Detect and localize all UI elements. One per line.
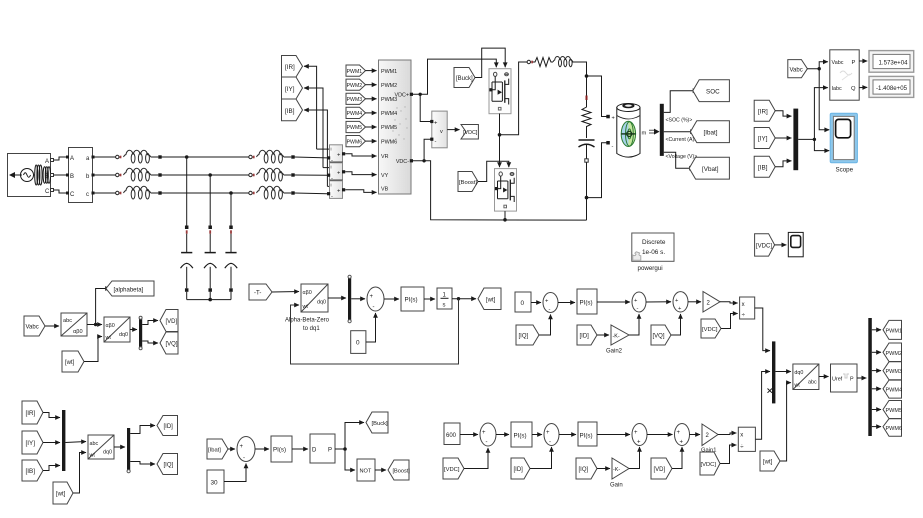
wire constant 0 to pll sum bbox=[366, 313, 376, 342]
shunt capacitor branch phase B bbox=[225, 193, 237, 300]
port tick row Y second bbox=[249, 173, 252, 176]
wire sensor B output to IB tag bbox=[304, 110, 327, 186]
node capacitor bank common bbox=[208, 298, 212, 302]
svg-text:-: - bbox=[549, 307, 551, 313]
current measurement block phase Y bbox=[327, 163, 345, 182]
svg-text:[Buck]: [Buck] bbox=[372, 421, 388, 427]
wire mosfet Q1 source to switch node bbox=[499, 114, 501, 167]
port square snubber bottom bbox=[585, 159, 588, 162]
svg-text:VB: VB bbox=[381, 187, 389, 193]
wire sensor Y output to IY tag bbox=[304, 88, 323, 168]
svg-text:C: C bbox=[70, 192, 75, 198]
capacitor C snubber bbox=[579, 140, 595, 159]
from tag PWM2 top bbox=[346, 79, 377, 90]
wire PI to relay bbox=[292, 448, 308, 450]
svg-text:v: v bbox=[440, 129, 443, 135]
svg-text:A: A bbox=[45, 159, 49, 165]
goto tag PWM6 out bbox=[883, 419, 902, 437]
svg-text:-: - bbox=[243, 456, 245, 462]
svg-text:-: - bbox=[486, 440, 488, 446]
wire phase R row bbox=[94, 156, 116, 158]
svg-text:αβ0: αβ0 bbox=[106, 323, 115, 329]
svg-text:[Buck]: [Buck] bbox=[456, 76, 473, 82]
shunt capacitor branch phase Y bbox=[204, 175, 216, 300]
from tag VQ q chain bbox=[651, 325, 671, 345]
svg-text:[VDC]: [VDC] bbox=[702, 327, 718, 333]
from tag IB bottom bbox=[22, 460, 43, 481]
wire IQ to q sum1 bbox=[539, 315, 551, 336]
svg-text:30: 30 bbox=[211, 480, 219, 487]
current measurement block phase R bbox=[327, 145, 345, 164]
svg-text:wt: wt bbox=[89, 453, 96, 459]
wire VD to d sum4 bbox=[672, 447, 682, 469]
wire battery m to bus selector bbox=[649, 129, 660, 135]
svg-text:i: i bbox=[331, 147, 332, 152]
PI controller charge bbox=[271, 436, 292, 462]
svg-text:PWM4: PWM4 bbox=[347, 111, 363, 117]
svg-text:[Boost]: [Boost] bbox=[393, 469, 411, 475]
wire bus to SOC tag bbox=[664, 91, 698, 113]
svg-text:PWM1: PWM1 bbox=[886, 328, 903, 334]
wire d sum2 to PI2 bbox=[559, 434, 576, 436]
svg-text:[IR]: [IR] bbox=[26, 410, 36, 417]
demux VD VQ bbox=[139, 319, 142, 347]
svg-text:[VDC]: [VDC] bbox=[463, 130, 478, 136]
svg-text:-: - bbox=[637, 306, 639, 312]
inductor L1 row R bbox=[124, 150, 151, 163]
from tag Buck bbox=[454, 68, 475, 88]
svg-text:[VQ]: [VQ] bbox=[653, 334, 665, 340]
wire pll transform to demux bbox=[328, 297, 346, 299]
svg-text:[IR]: [IR] bbox=[285, 64, 295, 71]
wire ID to Gain2 bbox=[597, 334, 609, 336]
goto tag PWM4 out bbox=[883, 380, 902, 398]
constant 30 bbox=[207, 470, 224, 493]
goto tag PWM2 out bbox=[883, 343, 902, 362]
svg-text:Q: Q bbox=[851, 86, 856, 92]
wire IB to scope mux bbox=[775, 161, 791, 167]
sum d4 bbox=[675, 424, 690, 446]
svg-text:Gain2: Gain2 bbox=[606, 349, 623, 355]
svg-text:PI(s): PI(s) bbox=[514, 433, 527, 440]
svg-text:dq0: dq0 bbox=[317, 300, 326, 306]
wire 0 to q sum1 bbox=[531, 302, 541, 304]
wire dc bus to battery plus bbox=[587, 76, 607, 117]
from tag wt D bbox=[53, 482, 73, 504]
three-phase AC source block bbox=[8, 154, 54, 197]
wire demux to PWM2 bbox=[872, 351, 881, 353]
sum d2 bbox=[544, 424, 559, 446]
svg-text:abc: abc bbox=[90, 441, 99, 447]
goto tag VDC dclink bbox=[461, 125, 478, 140]
wire wt to dq0 block A bbox=[84, 337, 102, 362]
wire row B into current sensor bbox=[295, 192, 328, 195]
wire phase Y row bbox=[94, 174, 116, 176]
relay block D to P bbox=[310, 434, 335, 463]
from tag Vabc right bbox=[788, 60, 808, 78]
wire d PI to sum2 bbox=[532, 434, 542, 436]
wire gain to product d bbox=[718, 433, 736, 435]
from tag IQ d chain bbox=[576, 458, 597, 479]
wire charge sum to PI bbox=[255, 448, 269, 450]
svg-text:VDC-: VDC- bbox=[396, 159, 409, 165]
from tag ID q chain bbox=[577, 325, 597, 345]
svg-text:[IB]: [IB] bbox=[285, 108, 295, 115]
wire mux to scope input2 bbox=[814, 139, 829, 150]
svg-text:VDC+: VDC+ bbox=[394, 93, 409, 99]
svg-text:Vabc: Vabc bbox=[790, 67, 803, 73]
svg-text:[IQ]: [IQ] bbox=[519, 334, 529, 340]
inductor L dc filter bbox=[553, 56, 573, 66]
wire product q to output mux bbox=[755, 308, 770, 351]
svg-text:[VDC]: [VDC] bbox=[756, 244, 772, 250]
svg-text:<SOC (%)>: <SOC (%)> bbox=[666, 118, 693, 124]
svg-text:[wt]: [wt] bbox=[65, 360, 75, 366]
from tag PWM1 top bbox=[346, 65, 377, 76]
three-phase V-I measurement block bbox=[66, 148, 95, 203]
svg-text:i: i bbox=[331, 165, 332, 170]
wire dq0 A to demux bbox=[130, 329, 137, 331]
svg-text:wt: wt bbox=[302, 304, 309, 310]
sum q1 bbox=[543, 293, 558, 313]
svg-text:0: 0 bbox=[356, 340, 360, 347]
wire source A to measurement A bbox=[54, 157, 66, 160]
svg-text:[ID]: [ID] bbox=[580, 334, 590, 340]
wire switch node to RL filter bbox=[500, 62, 528, 135]
mux currents bottom bbox=[62, 410, 65, 471]
svg-text:+: + bbox=[634, 430, 638, 436]
goto tag VD A bbox=[160, 310, 178, 332]
wire relay to NOT bbox=[345, 449, 355, 470]
transform block abc to dq0 D bbox=[88, 435, 114, 459]
from tag IR bottom bbox=[22, 401, 43, 424]
svg-text:VY: VY bbox=[381, 173, 389, 179]
port tick phase B bbox=[116, 191, 119, 194]
svg-text:-: - bbox=[331, 193, 333, 199]
wire mosfet Q2 source to bottom rail bbox=[504, 211, 506, 220]
node VDC+ tap bbox=[419, 93, 422, 96]
wire Q to display2 bbox=[859, 86, 867, 88]
port tick phase R bbox=[116, 155, 119, 158]
node row B bbox=[229, 191, 233, 195]
svg-text:[ID]: [ID] bbox=[514, 467, 524, 473]
goto tag PWM1 out bbox=[883, 320, 902, 339]
wire demux to PWM4 bbox=[872, 388, 881, 390]
wire sensor R output to IR tag bbox=[304, 66, 317, 149]
svg-text:+: + bbox=[482, 430, 486, 436]
wire demux to ID goto bbox=[130, 426, 155, 434]
svg-text:wt: wt bbox=[793, 383, 800, 389]
svg-text:[VD]: [VD] bbox=[166, 319, 178, 325]
wire sensor B to inverter VB bbox=[345, 190, 376, 193]
gain 2 q chain bbox=[703, 292, 720, 313]
svg-text:[IQ]: [IQ] bbox=[579, 467, 589, 473]
wire bus to Vbat tag bbox=[664, 152, 694, 168]
goto tag ID bottom bbox=[157, 416, 178, 436]
svg-text:-: - bbox=[435, 139, 437, 145]
from tag Boost bbox=[458, 172, 478, 192]
wire Gain2 to q sum2 bbox=[629, 314, 639, 335]
svg-text:+: + bbox=[546, 430, 550, 436]
svg-text:PWM2: PWM2 bbox=[886, 351, 903, 357]
wire PI to integrator bbox=[424, 298, 435, 300]
svg-text:[wt]: [wt] bbox=[56, 492, 66, 498]
gain Gain2 bbox=[606, 325, 629, 355]
svg-text:PWM2: PWM2 bbox=[381, 83, 397, 89]
svg-text:+: + bbox=[240, 444, 244, 450]
svg-text:[VDC]: [VDC] bbox=[701, 462, 717, 468]
wire demux to PWM6 bbox=[872, 426, 881, 428]
svg-text:[IY]: [IY] bbox=[26, 440, 36, 447]
sum d1 bbox=[480, 423, 496, 446]
wire VDC to product d divide bbox=[720, 445, 736, 464]
port tick phase Y bbox=[116, 173, 119, 176]
mosfet Q1 buck switch bbox=[489, 69, 511, 114]
goto tag VQ A bbox=[160, 332, 178, 354]
node buck boost split bbox=[343, 447, 347, 451]
from tag IQ q chain bbox=[516, 325, 539, 345]
svg-text:1.573e+04: 1.573e+04 bbox=[879, 59, 909, 66]
wire pll sum to PI bbox=[384, 298, 399, 300]
wire bus to Ibat tag bbox=[664, 131, 695, 133]
svg-text:<Current (A)>: <Current (A)> bbox=[666, 137, 698, 143]
wire row Y to junction bbox=[162, 174, 251, 176]
svg-text:abc: abc bbox=[808, 380, 817, 386]
svg-text:B: B bbox=[70, 174, 74, 180]
logic NOT block bbox=[357, 459, 375, 481]
svg-text:PWM5: PWM5 bbox=[381, 125, 397, 131]
gain 2 d chain bbox=[701, 424, 718, 454]
wire demux to PWM3 bbox=[872, 370, 881, 372]
wire demux to pll sum bbox=[351, 298, 365, 300]
svg-text:powergui: powergui bbox=[638, 265, 663, 272]
svg-text:Uref: Uref bbox=[832, 377, 843, 383]
wire row B to junction bbox=[162, 192, 251, 194]
wire gain to product q bbox=[720, 302, 738, 303]
svg-text:[IQ]: [IQ] bbox=[164, 463, 174, 469]
wire VDC to product q divide bbox=[721, 314, 738, 329]
wire battery minus to rail bbox=[587, 143, 607, 198]
wire mux to abc-dq0 D bbox=[65, 442, 86, 443]
sum q2 bbox=[632, 292, 646, 312]
from tag Vabc bottom-left bbox=[24, 316, 45, 336]
wire source C to measurement C bbox=[54, 190, 66, 193]
from tag VDC q chain bbox=[701, 319, 721, 338]
svg-text:[Ibat]: [Ibat] bbox=[208, 448, 221, 454]
demux pwm out bbox=[868, 318, 872, 436]
shunt capacitor branch phase R bbox=[181, 157, 193, 300]
wire VDC tag to small scope bbox=[775, 244, 787, 246]
wire integrator to wt tag bbox=[452, 298, 476, 300]
svg-text:[Boost]: [Boost] bbox=[459, 180, 477, 186]
wire IY to scope mux bbox=[775, 137, 791, 139]
svg-text:-T-: -T- bbox=[254, 291, 261, 297]
svg-text:αβ0: αβ0 bbox=[73, 329, 83, 335]
svg-text:-K-: -K- bbox=[613, 467, 620, 473]
demux pll bbox=[348, 278, 351, 320]
wire 30 to charge sum bbox=[224, 464, 246, 482]
from tag wt A bbox=[62, 351, 84, 372]
wire VQ to q sum3 bbox=[671, 314, 681, 335]
svg-text:+: + bbox=[680, 440, 684, 446]
wire Boost tag to mosfet Q2 gate bbox=[478, 161, 509, 181]
svg-text:Scope: Scope bbox=[836, 167, 854, 174]
wire demux to VQ bbox=[142, 341, 158, 343]
PI controller pll bbox=[401, 287, 424, 311]
svg-text:<Voltage (V)>: <Voltage (V)> bbox=[666, 154, 698, 160]
wire snubber to bottom rail bbox=[586, 162, 588, 220]
wire q PI to sum2 bbox=[597, 301, 630, 303]
display Q value bbox=[869, 76, 914, 97]
goto tag PWM5 out bbox=[883, 401, 902, 419]
from tag VDC d divide bbox=[700, 452, 720, 475]
wire product d to mux bbox=[755, 372, 770, 440]
from tag VDC monitor bbox=[755, 234, 775, 256]
wire d sum4 to gain 2 bbox=[690, 434, 701, 436]
scope block big bbox=[830, 113, 857, 173]
feedback wire wt to pll transform bbox=[291, 299, 459, 364]
mux dq ref bbox=[772, 341, 775, 403]
svg-text:PWM5: PWM5 bbox=[886, 408, 903, 414]
sum charge bbox=[237, 437, 255, 462]
goto tag alphabeta bbox=[106, 281, 154, 296]
PI controller q bbox=[577, 289, 597, 314]
wire IR to current mux bbox=[43, 413, 60, 418]
svg-text:[ID]: [ID] bbox=[164, 424, 174, 430]
goto tag Ibat right bbox=[690, 121, 729, 143]
goto tag Vbat bbox=[689, 157, 729, 179]
svg-text:[IB]: [IB] bbox=[26, 468, 36, 475]
svg-text:NOT: NOT bbox=[360, 469, 372, 475]
wire Vabc to abc-ab0 bbox=[45, 325, 59, 327]
svg-text:[Ibat]: [Ibat] bbox=[704, 129, 718, 136]
wire Vabc to PQ block bbox=[807, 62, 827, 69]
resistor R snubber vertical bbox=[582, 100, 591, 138]
svg-text:+: + bbox=[677, 430, 681, 436]
svg-text:[IY]: [IY] bbox=[285, 86, 295, 93]
node mux split bbox=[813, 138, 816, 141]
sum d3 bbox=[632, 424, 647, 446]
inductor L2 row Y bbox=[124, 168, 151, 181]
svg-text:D: D bbox=[312, 448, 317, 454]
wire d PI2 to sum3 bbox=[597, 434, 630, 436]
svg-text:+: + bbox=[637, 440, 641, 446]
from tag ID d chain bbox=[511, 458, 530, 479]
svg-text:abc: abc bbox=[63, 318, 72, 324]
transform block ab0 to dq0 A bbox=[104, 317, 130, 342]
wire Uref to pwm demux bbox=[857, 377, 866, 379]
svg-text:B: B bbox=[45, 174, 49, 180]
wire Gain to d sum3 bbox=[629, 447, 640, 469]
transform block dq0 to abc bbox=[793, 364, 819, 390]
svg-text:Vabc: Vabc bbox=[832, 60, 844, 66]
wire q sum3 to gain 2 bbox=[688, 301, 701, 303]
sum pll bbox=[367, 287, 384, 311]
scope block small vdc bbox=[788, 232, 803, 256]
node row Y bbox=[208, 173, 212, 177]
wire L filter to dc bus top bbox=[572, 62, 586, 97]
wire q sum1 to PI bbox=[558, 302, 575, 304]
constant 600 bbox=[444, 423, 460, 445]
svg-text:-: - bbox=[549, 440, 551, 446]
goto tag PWM3 out bbox=[883, 362, 902, 380]
wire sensor Y to inverter VY bbox=[345, 172, 376, 175]
svg-text:[wt]: [wt] bbox=[763, 460, 773, 466]
svg-text:PWM4: PWM4 bbox=[381, 111, 397, 117]
battery block bbox=[617, 104, 647, 158]
svg-text:PI(s): PI(s) bbox=[580, 300, 593, 307]
svg-text:PWM4: PWM4 bbox=[886, 387, 903, 393]
wire row R to junction bbox=[162, 156, 251, 158]
wire source B to measurement B bbox=[54, 174, 66, 176]
svg-text:P: P bbox=[850, 377, 854, 383]
svg-text:[VQ]: [VQ] bbox=[166, 342, 178, 348]
node dc bus top bbox=[585, 74, 589, 78]
sum q3 bbox=[673, 292, 688, 312]
svg-text:Discrete: Discrete bbox=[642, 239, 666, 246]
svg-text:i: i bbox=[331, 183, 332, 188]
node battery minus join bbox=[585, 196, 589, 200]
wire sensor R to inverter VR bbox=[345, 154, 376, 156]
goto tag Buck bottom bbox=[366, 412, 388, 433]
current measurement block phase B bbox=[327, 181, 345, 200]
svg-text:-1.408e+05: -1.408e+05 bbox=[876, 85, 908, 92]
wire VDC+ rail to mosfet Q1 drain bbox=[413, 59, 496, 94]
wire joining capacitor branches bbox=[187, 299, 231, 301]
powergui block bbox=[632, 233, 674, 272]
svg-text:αβ0: αβ0 bbox=[303, 290, 312, 296]
wire d sum3 to sum4 bbox=[647, 434, 673, 436]
svg-text:Gain: Gain bbox=[610, 483, 623, 489]
svg-text:VR: VR bbox=[381, 154, 389, 160]
svg-text:C: C bbox=[45, 189, 50, 195]
PQ power measurement block bbox=[830, 50, 859, 100]
wire d sum1 to PI bbox=[496, 434, 509, 436]
wire demux to VD bbox=[142, 321, 158, 325]
svg-text:x: x bbox=[740, 433, 743, 439]
PI controller d2 bbox=[578, 422, 597, 446]
svg-text:A: A bbox=[70, 156, 74, 162]
svg-text:Alpha-Beta-Zero: Alpha-Beta-Zero bbox=[285, 318, 330, 324]
node Vabc split bbox=[818, 67, 821, 70]
svg-text:c: c bbox=[86, 192, 89, 198]
from tag IY bottom bbox=[22, 431, 43, 454]
wire Vdc measurement minus tap bbox=[424, 139, 432, 161]
wire dq0-abc to Uref bbox=[819, 376, 829, 378]
node VDC- tap bbox=[422, 159, 425, 162]
wire switch node into mosfet Q2 drain bbox=[499, 160, 501, 167]
port tick row B second bbox=[249, 191, 252, 194]
wire abc-dq0 to demux D bbox=[114, 446, 125, 448]
svg-text:PI(s): PI(s) bbox=[405, 297, 418, 304]
svg-text:PWM6: PWM6 bbox=[886, 426, 903, 432]
wire IR to scope mux bbox=[775, 111, 791, 116]
svg-text:s: s bbox=[443, 303, 446, 309]
svg-text:[alphabeta]: [alphabeta] bbox=[114, 287, 144, 293]
svg-text:dq0: dq0 bbox=[103, 450, 112, 456]
wire mux to Iabc and scope bbox=[798, 88, 828, 140]
node switch mid bbox=[498, 133, 502, 137]
transform block abc to alphabeta bbox=[61, 313, 87, 336]
integrator 1/s bbox=[437, 288, 452, 309]
wire ab0 out with alphabeta branch bbox=[87, 324, 102, 326]
PWM generator Uref block bbox=[831, 364, 858, 392]
svg-text:Vabc: Vabc bbox=[26, 325, 39, 331]
svg-text:PWM6: PWM6 bbox=[347, 139, 363, 145]
port tick RC branch bbox=[586, 96, 588, 101]
port tick RL input bbox=[527, 60, 530, 63]
wire -T- to pll transform bbox=[272, 291, 299, 294]
